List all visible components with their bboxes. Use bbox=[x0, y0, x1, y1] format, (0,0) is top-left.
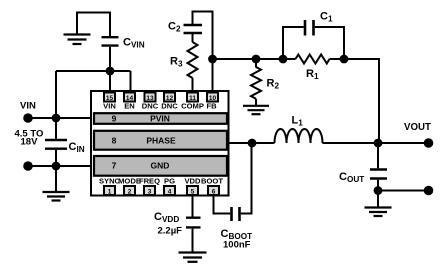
ground (top-left, for CVIN) bbox=[64, 35, 91, 45]
pin 11 COMP bbox=[181, 93, 204, 111]
wire FB drop bbox=[212, 59, 214, 93]
pin 13 DNC bbox=[142, 93, 159, 111]
capacitor CVIN bbox=[102, 37, 145, 50]
svg-text:PVIN: PVIN bbox=[150, 114, 170, 124]
capacitor CBOOT bbox=[221, 207, 253, 251]
wire BOOT drop bbox=[214, 195, 231, 214]
svg-text:6: 6 bbox=[212, 189, 216, 196]
capacitor CIN bbox=[45, 140, 85, 154]
svg-text:DNC: DNC bbox=[161, 101, 178, 110]
svg-text:4: 4 bbox=[168, 189, 172, 196]
svg-text:2: 2 bbox=[128, 189, 132, 196]
node return terminal bbox=[424, 186, 434, 196]
svg-text:MODE: MODE bbox=[118, 177, 141, 186]
svg-text:FB: FB bbox=[206, 101, 217, 110]
wire CVDD to ground bbox=[192, 229, 194, 252]
node lower-left terminal bbox=[23, 161, 33, 171]
resistor R1 bbox=[296, 55, 330, 82]
node junction VOUT bbox=[374, 139, 383, 148]
svg-text:2.2µF: 2.2µF bbox=[158, 226, 183, 237]
svg-text:VIN: VIN bbox=[20, 101, 36, 112]
wire COUT bottom bbox=[377, 180, 379, 191]
wire lower gnd line bbox=[28, 165, 94, 167]
pin 3 FREQ bbox=[139, 177, 160, 196]
svg-text:9: 9 bbox=[112, 114, 117, 124]
wire PHASE out bbox=[228, 142, 275, 144]
wire return line bbox=[378, 190, 429, 192]
wire L1 to VOUT bbox=[323, 142, 429, 144]
capacitor COUT bbox=[339, 170, 387, 185]
capacitor C1 bbox=[305, 11, 333, 36]
svg-text:VDD: VDD bbox=[184, 177, 201, 186]
node VOUT terminal bbox=[424, 138, 434, 148]
pin 1 SYNC bbox=[99, 177, 121, 196]
node junction CVIN bbox=[106, 67, 115, 76]
svg-text:PG: PG bbox=[164, 177, 175, 186]
pin 6 BOOT bbox=[201, 177, 223, 196]
wire VOUT to COUT bbox=[377, 143, 379, 168]
ground (R2) bbox=[243, 106, 269, 114]
node junction C1 left bbox=[279, 55, 288, 64]
wire COUT to ground bbox=[377, 191, 379, 208]
svg-text:8: 8 bbox=[112, 136, 117, 146]
node junction COUT bottom bbox=[374, 186, 383, 195]
pin 5 VDD bbox=[184, 177, 201, 196]
wire to ground left bbox=[55, 166, 57, 192]
wire junction branch horizontal bbox=[56, 70, 131, 72]
pin 8 PHASE bar bbox=[94, 131, 227, 150]
pin 2 MODE bbox=[118, 177, 141, 196]
svg-text:1: 1 bbox=[108, 189, 112, 196]
svg-text:COMP: COMP bbox=[181, 101, 204, 110]
wire CIN bottom to gnd line bbox=[55, 150, 57, 166]
svg-text:GND: GND bbox=[151, 161, 170, 171]
svg-text:18V: 18V bbox=[21, 137, 39, 148]
ground (left, below CIN) bbox=[43, 192, 70, 201]
resistor R2 bbox=[251, 59, 279, 99]
wire comp line bbox=[213, 58, 296, 60]
pin 15 VIN bbox=[103, 93, 116, 111]
svg-text:7: 7 bbox=[112, 161, 117, 171]
ground (CVDD) bbox=[179, 253, 207, 262]
node junction FB bbox=[208, 55, 217, 64]
svg-text:100nF: 100nF bbox=[223, 240, 251, 251]
wire R2 to ground bbox=[255, 99, 257, 106]
node 4.5 TO 18V label bbox=[15, 129, 44, 148]
resistor R3 bbox=[170, 42, 198, 78]
svg-text:DNC: DNC bbox=[142, 101, 159, 110]
node junction BOOT net bbox=[248, 139, 257, 148]
svg-text:EN: EN bbox=[124, 101, 135, 110]
capacitor C2 bbox=[168, 21, 202, 34]
node junction lower-left bbox=[52, 162, 61, 171]
pin 14 EN bbox=[124, 93, 135, 111]
wire C2-R3 bbox=[192, 34, 194, 42]
wire CBOOT to phase node bbox=[241, 143, 252, 214]
wire VDD drop bbox=[192, 195, 194, 217]
wire COMP drop bbox=[192, 78, 194, 93]
svg-text:VIN: VIN bbox=[103, 101, 116, 110]
wire VIN rail to CIN bbox=[55, 118, 57, 139]
op-amp U1 (regulator IC body) bbox=[91, 91, 229, 196]
pin 7 GND bar bbox=[94, 156, 227, 176]
wire CVIN bottom to junction bbox=[109, 47, 111, 93]
node junction VIN bbox=[52, 114, 61, 123]
pin 10 FB bbox=[206, 93, 218, 111]
svg-text:BOOT: BOOT bbox=[201, 177, 223, 186]
wire CVIN top loop bbox=[77, 13, 110, 37]
wire left rail down to VIN line bbox=[55, 71, 57, 118]
wire C2 top loop to FB rail bbox=[193, 12, 213, 60]
node VIN terminal bbox=[23, 113, 33, 123]
pin 12 DNC bbox=[161, 93, 178, 111]
svg-text:VOUT: VOUT bbox=[404, 122, 431, 133]
wire R1 right bbox=[330, 59, 380, 143]
capacitor CVDD bbox=[154, 211, 201, 237]
svg-text:PHASE: PHASE bbox=[146, 136, 176, 146]
svg-text:5: 5 bbox=[191, 189, 195, 196]
wire C1 loop right bbox=[315, 27, 344, 59]
svg-text:3: 3 bbox=[148, 189, 152, 196]
pin 9 PVIN bar bbox=[94, 113, 227, 124]
ground (COUT) bbox=[365, 208, 392, 217]
node junction R2 bbox=[252, 55, 261, 64]
pin 4 PG bbox=[164, 177, 175, 196]
wire C1 loop left bbox=[283, 27, 304, 59]
node junction C1 right bbox=[340, 55, 349, 64]
svg-text:FREQ: FREQ bbox=[139, 177, 160, 186]
wire EN drop bbox=[130, 71, 132, 93]
inductor L1 bbox=[275, 115, 323, 144]
wire VIN line bbox=[28, 117, 94, 119]
